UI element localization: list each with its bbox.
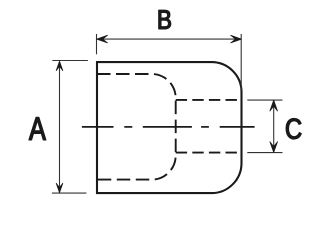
centerline dash-dot — [82, 126, 255, 128]
label A — [29, 117, 46, 139]
hidden small bore top line (dashed) — [176, 99, 242, 101]
dimension C top arrowhead — [270, 100, 278, 111]
dimension B right arrowhead — [231, 35, 242, 43]
dimension A extension line bottom — [52, 192, 87, 194]
dimension B extension line left — [96, 34, 98, 54]
dimension A extension line top — [52, 60, 88, 62]
dimension A bottom arrowhead — [56, 183, 63, 192]
dimension A line — [59, 62, 61, 193]
dimension C line — [273, 100, 275, 152]
dimension C extension line top — [247, 99, 282, 101]
dimension B extension line right — [240, 34, 242, 90]
dimension B left arrowhead — [97, 35, 108, 43]
dimension C bottom arrowhead — [270, 142, 278, 153]
label C — [286, 119, 301, 140]
dimension A top arrowhead — [56, 61, 63, 70]
outer body outline — [97, 62, 242, 193]
hidden cavity outline (dashed) — [97, 74, 176, 180]
dimension C extension line bottom — [247, 152, 282, 154]
label B — [159, 10, 171, 29]
hidden small bore bottom line (dashed) — [176, 152, 242, 154]
dimension B line — [97, 38, 241, 40]
